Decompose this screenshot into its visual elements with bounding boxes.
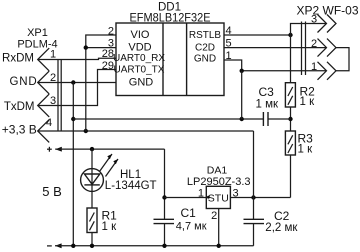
svg-text:L-1344GT: L-1344GT: [105, 180, 157, 192]
svg-text:RxDM: RxDM: [2, 53, 34, 65]
svg-text:DA1: DA1: [207, 165, 228, 177]
svg-text:1: 1: [50, 49, 56, 61]
svg-text:C2: C2: [274, 209, 290, 223]
svg-text:TxDM: TxDM: [4, 101, 35, 113]
svg-text:XP1: XP1: [27, 27, 48, 39]
svg-text:EFM8LB12F32E: EFM8LB12F32E: [130, 13, 211, 25]
svg-text:RSTLB: RSTLB: [189, 30, 222, 41]
svg-text:HL1: HL1: [120, 169, 141, 181]
svg-text:GND: GND: [194, 54, 216, 65]
svg-text:1 к: 1 к: [300, 96, 316, 108]
svg-text:1 к: 1 к: [298, 144, 314, 156]
svg-text:C1: C1: [181, 206, 197, 220]
svg-text:UART0_RX: UART0_RX: [113, 53, 165, 64]
svg-text:1: 1: [311, 61, 317, 73]
svg-text:5 В: 5 В: [42, 184, 62, 199]
svg-text:4: 4: [46, 117, 52, 129]
svg-text:+3,3 В: +3,3 В: [2, 122, 37, 136]
svg-text:GND: GND: [10, 76, 38, 88]
svg-text:STU: STU: [208, 192, 229, 204]
svg-text:2: 2: [211, 210, 217, 222]
svg-text:VIO: VIO: [131, 29, 150, 41]
svg-text:1 к: 1 к: [102, 221, 118, 233]
svg-text:UART0_TX: UART0_TX: [114, 65, 165, 76]
svg-text:1 мк: 1 мк: [256, 98, 279, 110]
svg-text:C2D: C2D: [195, 42, 215, 53]
svg-text:4,7 мк: 4,7 мк: [176, 221, 207, 233]
svg-text:VDD: VDD: [128, 41, 151, 53]
svg-text:GND: GND: [129, 77, 154, 89]
svg-text:2,2 мк: 2,2 мк: [265, 222, 298, 234]
svg-text:3: 3: [311, 14, 317, 26]
svg-text:2: 2: [311, 38, 317, 50]
svg-text:C3: C3: [259, 85, 275, 99]
